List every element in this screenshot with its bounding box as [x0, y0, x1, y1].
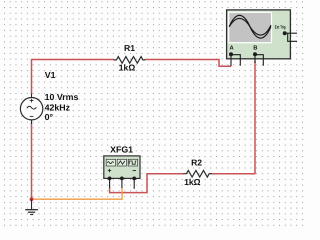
xfg minus label: [133, 170, 136, 172]
scope waveform B: [229, 18, 271, 35]
scope screen: [229, 12, 272, 42]
wire: XFG1 plus to R2 left: [110, 174, 184, 193]
wire: V1 top to R1 left, net at y=59.5: [32, 60, 114, 95]
scope waveform A: [229, 15, 271, 38]
source V1: [20, 94, 42, 125]
scope pin A-: [231, 55, 240, 66]
svg-text:XFG1: XFG1: [110, 144, 133, 154]
svg-text:V1: V1: [45, 70, 56, 80]
ground: [25, 199, 38, 214]
svg-text:Ext Trig: Ext Trig: [275, 24, 286, 29]
xfg plus label: [108, 169, 111, 172]
scope ext trig terminal: [283, 31, 287, 35]
xfg icon sine: [106, 159, 115, 166]
svg-text:B: B: [253, 45, 257, 51]
scope terminal B+: [253, 52, 257, 56]
oscilloscope XSC1 body: [227, 10, 291, 59]
xfg icon square: [128, 159, 137, 166]
scope terminal A+: [229, 52, 233, 56]
wire: orange V1/ground junction to XFG1 common: [32, 188, 123, 200]
wire: R2 right lead to B wire: [212, 173, 256, 175]
xfg terminal minus: [132, 177, 136, 181]
svg-text:1kΩ: 1kΩ: [119, 63, 136, 73]
wire: R1 right to scope A+ with jog: [145, 60, 231, 67]
wire: V1 bottom down to ground junction: [31, 123, 33, 199]
xfg terminal plus: [108, 177, 112, 181]
function generator XFG1 body: [104, 156, 140, 179]
resistor R2: [184, 170, 212, 177]
scope ext trig pin 2: [288, 33, 297, 41]
svg-text:R1: R1: [124, 43, 135, 53]
svg-text:0°: 0°: [45, 112, 54, 122]
xfg terminal common: [120, 177, 124, 181]
wire: scope B+ down to R2 right: [254, 61, 256, 174]
svg-text:10 Vrms: 10 Vrms: [45, 92, 79, 102]
xfg icon triangle: [117, 159, 126, 166]
scope pin B-: [255, 55, 263, 66]
junction dot: [30, 197, 34, 201]
svg-text:1kΩ: 1kΩ: [184, 177, 201, 187]
svg-text:42kHz: 42kHz: [45, 102, 71, 112]
resistor R1: [114, 57, 146, 64]
svg-text:R2: R2: [191, 158, 202, 168]
